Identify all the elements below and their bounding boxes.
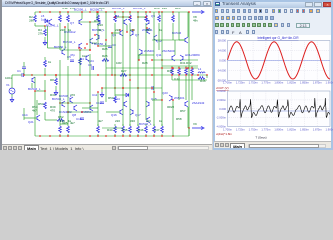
transistor Q17 bbox=[130, 109, 133, 115]
transistor Q13 bbox=[180, 55, 183, 61]
wire bbox=[185, 80, 187, 100]
node junction bbox=[153, 91, 154, 92]
node junction bbox=[114, 74, 115, 75]
svg-text:1.850m: 1.850m bbox=[300, 81, 310, 85]
wire q1 emitter bbox=[34, 77, 36, 88]
transistor Q8b bbox=[154, 35, 157, 41]
ground GND1 bbox=[43, 40, 47, 45]
wire bias h bbox=[35, 25, 45, 27]
transient title bar bbox=[213, 0, 333, 8]
wire stub bbox=[97, 12, 99, 15]
svg-text:1.775m: 1.775m bbox=[261, 128, 271, 132]
transistor Q12 bbox=[172, 55, 175, 61]
wire bbox=[105, 40, 107, 80]
capacitor C1 bbox=[22, 73, 24, 77]
node junction bbox=[105, 39, 106, 40]
wire q6 base bbox=[112, 32, 120, 34]
wire stub bbox=[129, 12, 131, 15]
wire bbox=[60, 123, 68, 125]
svg-text:1.900m: 1.900m bbox=[326, 81, 333, 85]
node junction bbox=[81, 111, 82, 112]
wire bbox=[114, 27, 116, 60]
wire fb loop v bbox=[47, 26, 49, 48]
node junction bbox=[39, 135, 40, 136]
svg-text:1.800m: 1.800m bbox=[274, 81, 284, 85]
node junction bbox=[126, 31, 127, 32]
svg-text:1.750m: 1.750m bbox=[249, 81, 259, 85]
node junction bbox=[119, 29, 120, 30]
node junction bbox=[111, 74, 112, 75]
resistor R15 bbox=[114, 15, 117, 22]
wire bbox=[178, 80, 180, 100]
trace distortion bbox=[228, 98, 330, 118]
wire q12 c bbox=[174, 40, 176, 55]
wire stub bbox=[145, 12, 147, 15]
node junction bbox=[161, 99, 162, 100]
node junction bbox=[105, 135, 106, 136]
node junction bbox=[49, 135, 50, 136]
node junction bbox=[114, 11, 115, 12]
transistor Q16 bbox=[120, 109, 123, 115]
wire bbox=[67, 66, 69, 124]
node OUT bbox=[206, 74, 207, 75]
transistor Q4 bbox=[124, 19, 127, 25]
node junction bbox=[89, 102, 90, 103]
wire bbox=[171, 76, 173, 80]
wire stub bbox=[59, 12, 61, 15]
node junction bbox=[172, 135, 173, 136]
capacitor C5 bbox=[70, 60, 74, 62]
node junction bbox=[114, 135, 115, 136]
wire bbox=[129, 60, 131, 80]
resistor R4 bbox=[44, 29, 47, 36]
resistor R45 bbox=[129, 126, 132, 133]
wire vin up bbox=[11, 75, 13, 88]
wire c1 to base bbox=[24, 74, 32, 76]
resistor R19 bbox=[145, 15, 148, 22]
ground GND4 bbox=[100, 92, 104, 97]
svg-text:1.875m: 1.875m bbox=[313, 81, 323, 85]
wire mirror link2 bbox=[138, 16, 146, 18]
wire q9 c bbox=[187, 12, 189, 37]
node junction bbox=[161, 59, 162, 60]
schematic canvas bbox=[4, 8, 213, 144]
wire drive bus upper bbox=[106, 67, 198, 69]
node junction bbox=[151, 74, 152, 75]
wire r8 top bbox=[55, 75, 57, 78]
svg-text:v(dist)*1.8m: v(dist)*1.8m bbox=[216, 132, 233, 136]
wire bbox=[172, 79, 207, 81]
node junction bbox=[191, 67, 192, 68]
resistor R52 bbox=[57, 119, 64, 122]
wire R2 bottom bbox=[34, 23, 36, 26]
wire stub bbox=[97, 23, 99, 27]
node junction bbox=[191, 74, 192, 75]
svg-text:1.900m: 1.900m bbox=[326, 128, 333, 132]
wire bbox=[97, 27, 99, 46]
plot 2 frame bbox=[228, 91, 331, 127]
node junction bbox=[97, 45, 98, 46]
svg-text:4.000m: 4.000m bbox=[217, 89, 227, 93]
resistor R41 bbox=[67, 126, 70, 133]
node junction bbox=[178, 74, 179, 75]
node junction bbox=[122, 11, 123, 12]
wire fb loop h bbox=[48, 47, 63, 49]
node junction bbox=[172, 99, 173, 100]
wire bbox=[114, 60, 116, 80]
node junction bbox=[89, 11, 90, 12]
node junction bbox=[122, 16, 123, 17]
transistor Q3 bbox=[97, 19, 100, 25]
wire q3 c bbox=[96, 12, 98, 19]
svg-text:14.000: 14.000 bbox=[218, 49, 227, 53]
transient bottom tab bar bbox=[214, 141, 331, 148]
svg-text:1.700m: 1.700m bbox=[223, 128, 233, 132]
diode D3 bbox=[126, 93, 129, 96]
transistor Q23 bbox=[169, 95, 172, 101]
resistor R53 bbox=[44, 102, 47, 109]
transistor Q27 bbox=[79, 43, 82, 49]
node junction bbox=[122, 87, 123, 88]
wire bbox=[31, 83, 33, 88]
node junction bbox=[105, 11, 106, 12]
resistor R40 bbox=[59, 126, 62, 133]
trace vOUT sine bbox=[228, 42, 330, 79]
wire r6 top bbox=[44, 57, 46, 60]
resistor R17 bbox=[129, 15, 132, 22]
wire q2 c bbox=[81, 12, 83, 19]
wire lower h2 bbox=[68, 111, 98, 113]
wire stub bbox=[145, 23, 147, 27]
wire bbox=[191, 76, 193, 80]
node junction bbox=[151, 59, 152, 60]
wire bbox=[153, 55, 155, 92]
node junction bbox=[153, 135, 154, 136]
wire bbox=[137, 55, 139, 88]
wire bbox=[97, 92, 99, 126]
node junction bbox=[129, 11, 130, 12]
node junction bbox=[137, 11, 138, 12]
wire bbox=[105, 12, 107, 40]
wire stub bbox=[114, 12, 116, 15]
svg-text:T (Secs): T (Secs) bbox=[255, 136, 266, 140]
node junction bbox=[44, 90, 45, 91]
transistor Q21 bbox=[37, 115, 40, 121]
node junction bbox=[111, 32, 112, 33]
node junction bbox=[89, 49, 90, 50]
wire bbox=[129, 80, 131, 126]
svg-text:1.800m: 1.800m bbox=[274, 128, 284, 132]
voltage source V8 bbox=[192, 10, 204, 13]
node junction bbox=[129, 135, 130, 136]
wire +48V top rail bbox=[35, 11, 189, 13]
transistor Q10 bbox=[62, 49, 65, 55]
wire q2q3 bases bbox=[79, 21, 100, 23]
wire bbox=[102, 127, 123, 129]
transistor Q15 bbox=[146, 101, 149, 107]
node junction bbox=[178, 67, 179, 68]
node junction bbox=[172, 11, 173, 12]
node junction bbox=[34, 90, 35, 91]
node junction bbox=[185, 74, 186, 75]
wire bbox=[172, 100, 174, 136]
wire q9 base bbox=[179, 39, 185, 41]
transistor Q5 bbox=[146, 19, 149, 25]
node junction bbox=[129, 16, 130, 17]
node junction bbox=[149, 11, 150, 12]
wire bbox=[59, 60, 61, 124]
node junction bbox=[145, 135, 146, 136]
toolbar icons (absolute on page) bbox=[215, 9, 218, 13]
svg-text:-14.000: -14.000 bbox=[217, 69, 227, 73]
wire bbox=[172, 27, 174, 40]
wire bbox=[145, 27, 147, 60]
resistor R27 bbox=[120, 74, 127, 77]
node junction bbox=[137, 16, 138, 17]
wire input bbox=[12, 74, 22, 76]
wire mirror link bbox=[115, 16, 130, 18]
node junction bbox=[89, 135, 90, 136]
node junction bbox=[97, 135, 98, 136]
wire stub bbox=[172, 12, 174, 15]
wire bbox=[153, 92, 155, 126]
resistor R8 bbox=[55, 78, 58, 85]
wire stub bbox=[114, 124, 116, 126]
resistor R13 bbox=[97, 15, 100, 22]
wire output bus bbox=[32, 74, 207, 76]
wire bbox=[114, 80, 116, 96]
wire stub bbox=[67, 12, 69, 15]
node junction bbox=[114, 16, 115, 17]
ground GND3 bbox=[54, 90, 58, 95]
plots area bbox=[215, 35, 331, 141]
wire bbox=[153, 12, 155, 55]
wire bbox=[35, 90, 45, 92]
wire stub bbox=[137, 124, 139, 126]
wire bbox=[171, 66, 173, 68]
wire bbox=[44, 112, 46, 120]
wire bbox=[36, 100, 38, 115]
wire c2 bot bbox=[23, 69, 25, 75]
node junction bbox=[161, 67, 162, 68]
wire stub bbox=[114, 134, 116, 136]
wire bbox=[45, 119, 57, 121]
node input bbox=[31, 74, 32, 75]
node junction bbox=[129, 74, 130, 75]
resistor R10 bbox=[59, 15, 62, 22]
wire bbox=[185, 66, 187, 68]
wire bbox=[178, 12, 180, 40]
wire bbox=[178, 66, 180, 68]
transistor Q14 bbox=[124, 101, 127, 107]
node junction bbox=[79, 49, 80, 50]
resistor R25 bbox=[102, 59, 109, 62]
schematic title bar bbox=[2, 0, 214, 7]
svg-text:1.775m: 1.775m bbox=[261, 81, 271, 85]
svg-text:1.725m: 1.725m bbox=[236, 128, 246, 132]
node junction bbox=[197, 74, 198, 75]
wire bbox=[161, 88, 163, 126]
node junction bbox=[59, 135, 60, 136]
wire vin dn bbox=[11, 94, 13, 97]
wire stub bbox=[153, 124, 155, 126]
wire stub bbox=[59, 134, 61, 136]
svg-text:28.000: 28.000 bbox=[218, 39, 227, 43]
node -48V bbox=[188, 127, 189, 128]
node junction bbox=[187, 67, 188, 68]
svg-text:2.000m: 2.000m bbox=[217, 98, 227, 102]
node junction bbox=[97, 91, 98, 92]
node junction bbox=[78, 47, 79, 48]
wire stub bbox=[129, 134, 131, 136]
wire right supply vertical bbox=[188, 12, 190, 136]
node junction bbox=[89, 21, 90, 22]
resistor R31 bbox=[178, 68, 181, 75]
svg-text:Intelligent qor G_4in+4in.CIR: Intelligent qor G_4in+4in.CIR bbox=[257, 36, 299, 40]
node junction bbox=[67, 11, 68, 12]
svg-text:1.825m: 1.825m bbox=[287, 81, 297, 85]
transistor Q9 bbox=[185, 37, 188, 43]
wire bbox=[185, 76, 187, 80]
capacitor C9 bbox=[92, 66, 94, 70]
wire stub bbox=[67, 134, 69, 136]
wire bbox=[178, 76, 180, 80]
node junction bbox=[97, 11, 98, 12]
wire q10 c bbox=[64, 27, 66, 49]
transistor Q18 bbox=[147, 117, 150, 123]
wire stub bbox=[59, 23, 61, 27]
transistor Q29 bbox=[74, 105, 77, 111]
wire stub bbox=[67, 23, 69, 27]
wire bbox=[138, 55, 140, 60]
wire bbox=[59, 27, 61, 50]
node bias bbox=[44, 25, 45, 26]
wire bbox=[191, 80, 193, 100]
wire bbox=[24, 117, 37, 119]
node junction bbox=[185, 67, 186, 68]
node junction bbox=[89, 49, 90, 50]
resistor R36 bbox=[198, 77, 205, 80]
wire bbox=[105, 80, 107, 102]
node junction bbox=[94, 34, 95, 35]
wire bbox=[101, 88, 103, 92]
transistor Q6 bbox=[120, 30, 123, 36]
node junction bbox=[44, 74, 45, 75]
wire bbox=[138, 54, 154, 56]
wire bbox=[106, 111, 120, 113]
node Q3 collector bbox=[96, 11, 97, 12]
ground GND2 bbox=[10, 97, 14, 102]
transistor Q19 bbox=[62, 101, 65, 107]
node junction bbox=[171, 67, 172, 68]
wire bbox=[152, 39, 185, 41]
resistor R50 bbox=[114, 96, 117, 103]
wire stub bbox=[114, 23, 116, 27]
node junction bbox=[137, 135, 138, 136]
node junction bbox=[97, 74, 98, 75]
node junction bbox=[59, 11, 60, 12]
wire stub bbox=[161, 124, 163, 126]
wire -48V bottom rail bbox=[35, 135, 189, 137]
wire R4 top bbox=[44, 26, 46, 29]
svg-text:1.875m: 1.875m bbox=[313, 128, 323, 132]
node junction bbox=[171, 74, 172, 75]
wire bbox=[126, 25, 128, 32]
wire tail bbox=[89, 22, 91, 50]
wire r8 bot bbox=[55, 86, 57, 90]
wire V9 stub bbox=[188, 128, 190, 136]
node +48V bbox=[188, 11, 189, 12]
wire R4 bottom bbox=[44, 37, 46, 40]
wire stub bbox=[172, 23, 174, 27]
transistor Q1 bbox=[32, 77, 35, 83]
transistor Q26 bbox=[96, 34, 99, 40]
resistor R11 bbox=[67, 15, 70, 22]
wire stub bbox=[161, 134, 163, 136]
node junction bbox=[145, 11, 146, 12]
wire bbox=[161, 46, 163, 88]
node junction bbox=[39, 11, 40, 12]
transistor Q2 bbox=[79, 19, 82, 25]
svg-text:1.700m: 1.700m bbox=[223, 81, 233, 85]
wire bbox=[79, 50, 81, 75]
node junction bbox=[49, 11, 50, 12]
node junction bbox=[161, 135, 162, 136]
wire drive bus lower bbox=[102, 87, 162, 89]
node junction bbox=[145, 16, 146, 17]
wire stub bbox=[137, 134, 139, 136]
node junction bbox=[67, 135, 68, 136]
node junction bbox=[146, 27, 147, 28]
transistor Q24 bbox=[86, 55, 89, 61]
wire pre-drive bbox=[152, 59, 198, 61]
resistor R49 bbox=[161, 126, 164, 133]
node junction bbox=[79, 74, 80, 75]
node junction bbox=[138, 59, 139, 60]
node junction bbox=[59, 102, 60, 103]
toolbars bbox=[213, 8, 333, 37]
svg-text:1.725m: 1.725m bbox=[236, 81, 246, 85]
capacitor C12 bbox=[100, 102, 104, 104]
wire stub bbox=[158, 12, 160, 15]
wire bbox=[34, 91, 36, 136]
node junction bbox=[64, 26, 65, 27]
resistor R48 bbox=[153, 126, 156, 133]
plot 1 zero axis bbox=[228, 59, 331, 61]
node junction bbox=[67, 111, 68, 112]
node junction bbox=[23, 74, 24, 75]
wire stub bbox=[122, 124, 124, 126]
resistor R43 bbox=[114, 126, 117, 133]
wire bbox=[98, 45, 110, 47]
wire stub bbox=[158, 23, 160, 27]
node junction bbox=[172, 67, 173, 68]
diode D1 bbox=[45, 19, 48, 22]
resistor R24 bbox=[79, 58, 82, 65]
transistor Q22 bbox=[185, 101, 188, 107]
wire c2 top bbox=[23, 62, 25, 67]
wire bbox=[161, 12, 163, 46]
node junction bbox=[122, 87, 123, 88]
wire bbox=[60, 49, 90, 51]
wire lower h1 bbox=[60, 102, 90, 104]
node Q2 collector bbox=[81, 11, 82, 12]
resistor R46 bbox=[137, 126, 140, 133]
resistor R44 bbox=[122, 126, 125, 133]
wire bbox=[122, 88, 124, 126]
wire stub bbox=[97, 134, 99, 136]
source VIN sine bbox=[9, 88, 15, 94]
